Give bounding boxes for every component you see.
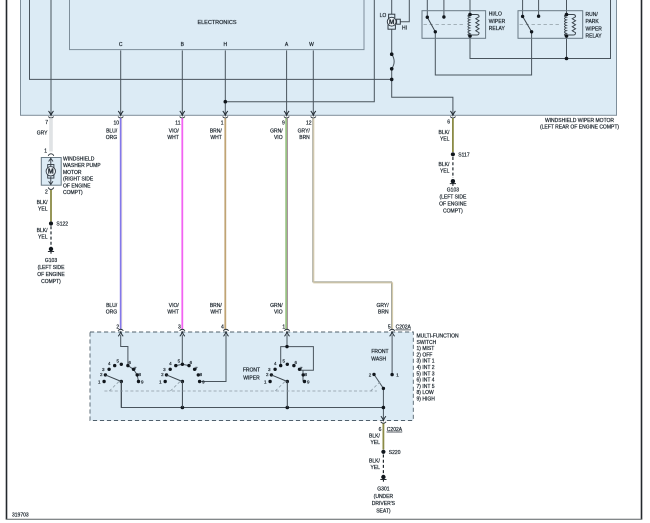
- wire motor to circuit breaker: [391, 29, 393, 54]
- svg-text:WINDSHIELD: WINDSHIELD: [63, 157, 95, 163]
- wire relay coils to top right: [470, 0, 611, 59]
- svg-text:1: 1: [44, 149, 47, 155]
- svg-text:RUN/: RUN/: [586, 12, 599, 18]
- front wash pivot: [382, 387, 385, 390]
- svg-text:6: 6: [447, 119, 450, 125]
- svg-text:BRN: BRN: [299, 135, 310, 141]
- svg-text:OF ENGINE: OF ENGINE: [439, 202, 467, 208]
- svg-text:9) HIGH: 9) HIGH: [417, 397, 436, 403]
- windshield washer pump motor box: [41, 158, 61, 186]
- svg-text:(LEFT SIDE: (LEFT SIDE: [38, 265, 66, 271]
- svg-text:H: H: [223, 42, 227, 48]
- page border left: [6, 0, 8, 519]
- svg-text:RELAY: RELAY: [489, 26, 506, 32]
- label MULTI-FUNCTION SWITCH legend: [417, 334, 460, 403]
- svg-text:BLU/: BLU/: [106, 303, 118, 309]
- svg-text:GRN/: GRN/: [270, 129, 283, 135]
- wire B to pin 11: [181, 50, 183, 115]
- svg-text:BLK/: BLK/: [369, 434, 380, 440]
- svg-text:OF ENGINE: OF ENGINE: [37, 272, 65, 278]
- relay2 coil: [564, 15, 575, 37]
- wire BLK/YEL washer to S122: [50, 190, 52, 221]
- svg-text:MOTOR: MOTOR: [63, 170, 82, 176]
- hi/lo wiper relay box: [422, 11, 486, 39]
- switch3 branch to contacts 7-8-9: [287, 347, 313, 371]
- switch1 contact bus 6-7-8-9: [128, 366, 139, 382]
- terminal pin 1 at motor box edge: [223, 111, 228, 118]
- svg-text:ORG: ORG: [106, 135, 118, 141]
- svg-text:7) INT 5: 7) INT 5: [417, 384, 435, 390]
- node bus switch2: [181, 406, 185, 410]
- wire dashed S122 to ground: [50, 226, 52, 246]
- wire H to pin 1: [224, 50, 226, 115]
- wire motor armature to top: [391, 0, 393, 14]
- ground G103 left: [48, 247, 54, 254]
- wire pin 7 inside box: [50, 0, 52, 115]
- svg-text:BLK/: BLK/: [37, 228, 48, 234]
- svg-text:G103: G103: [447, 188, 459, 194]
- svg-text:M: M: [48, 169, 54, 176]
- circuit breaker arc: [392, 54, 394, 69]
- terminal pin 10 at motor box edge: [118, 111, 123, 118]
- wire breaker to pin 6 exit: [392, 69, 453, 116]
- mechanical linkage dashed line: [104, 381, 381, 391]
- svg-text:(LEFT SIDE: (LEFT SIDE: [439, 195, 467, 201]
- svg-text:SEAT): SEAT): [376, 508, 391, 514]
- svg-text:YEL: YEL: [38, 207, 48, 213]
- run/park wiper relay box: [518, 11, 583, 39]
- svg-text:GRY/: GRY/: [376, 303, 389, 309]
- svg-text:(LEFT REAR OF ENGINE COMPT): (LEFT REAR OF ENGINE COMPT): [540, 124, 619, 130]
- wire pin1 to switch3 contacts: [286, 335, 288, 347]
- switch common bus: [121, 382, 383, 408]
- svg-text:S117: S117: [458, 152, 470, 158]
- node switch3 feed junction: [285, 345, 288, 348]
- svg-text:WIPER: WIPER: [243, 375, 260, 381]
- wire pin3 to switch2 contact 5: [181, 335, 183, 363]
- svg-text:BLK/: BLK/: [439, 130, 450, 136]
- page border right: [641, 0, 643, 519]
- svg-text:8) LOW: 8) LOW: [417, 390, 435, 396]
- rotary switch 2: [159, 359, 205, 408]
- splice S122: [49, 221, 53, 225]
- svg-text:WASH: WASH: [371, 357, 386, 363]
- svg-text:BLK/: BLK/: [369, 459, 380, 465]
- wire pin4 to switch2 contact 9: [201, 335, 226, 382]
- front wash contact 1: [390, 373, 393, 376]
- svg-text:9: 9: [282, 120, 285, 126]
- svg-text:WHT: WHT: [210, 135, 221, 141]
- svg-text:VIO/: VIO/: [169, 303, 180, 309]
- svg-text:12: 12: [306, 120, 312, 126]
- wire BLK/YEL C202A to S220: [382, 424, 384, 450]
- wire wash common to C202A pin 6: [382, 388, 384, 420]
- svg-text:G103: G103: [45, 258, 57, 264]
- front wash switch arm: [374, 374, 383, 388]
- svg-text:(UNDER: (UNDER: [374, 494, 394, 500]
- svg-text:VIO: VIO: [274, 309, 283, 315]
- wire from top turning right to wiper motor low brush: [30, 0, 392, 79]
- terminal pin 1 connector C202A: [284, 329, 289, 336]
- wire relay1 common to relay2 common: [435, 32, 531, 75]
- node: coil bus junction: [565, 57, 569, 61]
- svg-text:WASHER PUMP: WASHER PUMP: [63, 163, 101, 169]
- svg-text:LO: LO: [380, 13, 387, 19]
- wire BLU/ORG: [120, 118, 122, 329]
- wire GRY pin7 to washer pump: [50, 118, 53, 151]
- wire BRN/WHT: [224, 118, 226, 329]
- wire GRN/VIO: [285, 118, 287, 329]
- terminal pin 5 connector C202A: [389, 329, 394, 336]
- svg-text:FRONT: FRONT: [371, 349, 388, 355]
- svg-text:C202A: C202A: [387, 427, 403, 433]
- svg-text:S122: S122: [56, 222, 68, 228]
- page border bottom: [6, 518, 643, 520]
- svg-text:10: 10: [113, 120, 119, 126]
- node: H junction: [224, 100, 228, 104]
- wire VIO/WHT: [181, 118, 183, 329]
- svg-text:W: W: [309, 42, 314, 48]
- switch2 contact bus 4-5-6: [176, 364, 189, 365]
- svg-text:ELECTRONICS: ELECTRONICS: [197, 20, 236, 26]
- terminal pin 3 connector C202A: [180, 329, 185, 336]
- front wash contact 2: [372, 373, 375, 376]
- svg-text:YEL: YEL: [370, 440, 380, 446]
- wire dashed S220 to ground: [382, 455, 384, 474]
- svg-text:YEL: YEL: [440, 169, 450, 175]
- svg-text:BLK/: BLK/: [439, 162, 450, 168]
- svg-text:BLK/: BLK/: [37, 200, 48, 206]
- svg-text:YEL: YEL: [370, 465, 380, 471]
- terminal pin 4 connector C202A: [223, 329, 228, 336]
- svg-text:WHT: WHT: [167, 135, 178, 141]
- svg-text:YEL: YEL: [440, 137, 450, 143]
- rotary switch 3: [264, 359, 310, 408]
- svg-text:3) INT 1: 3) INT 1: [417, 359, 435, 365]
- svg-text:BLU/: BLU/: [106, 129, 118, 135]
- multi-function switch dashed box: [90, 332, 413, 421]
- svg-text:SWITCH: SWITCH: [417, 340, 437, 346]
- relay1 coil: [468, 15, 479, 37]
- svg-text:ORG: ORG: [106, 309, 118, 315]
- svg-text:WIPER: WIPER: [489, 19, 506, 25]
- node: breaker top: [390, 52, 394, 56]
- relay1 dashed actuation line: [424, 24, 465, 26]
- rotary switch 1: [98, 359, 144, 408]
- svg-text:WINDSHIELD WIPER MOTOR: WINDSHIELD WIPER MOTOR: [545, 118, 614, 124]
- splice S117: [451, 152, 455, 156]
- wire relay2 coil to junction: [566, 36, 568, 59]
- svg-text:GRY/: GRY/: [298, 129, 311, 135]
- svg-text:6: 6: [379, 427, 382, 433]
- node bus switch3: [286, 406, 290, 410]
- svg-text:WHT: WHT: [167, 309, 178, 315]
- wire relay2 contact b to top: [538, 0, 540, 16]
- svg-text:M: M: [389, 19, 394, 26]
- ground G103 right: [450, 179, 456, 186]
- svg-text:C202A: C202A: [396, 325, 412, 331]
- splice S220: [381, 450, 385, 454]
- svg-text:COMPT): COMPT): [41, 279, 61, 285]
- svg-text:WIPER: WIPER: [586, 26, 603, 32]
- terminal pin 7 at motor box edge: [48, 111, 53, 118]
- svg-text:OF ENGINE: OF ENGINE: [63, 183, 91, 189]
- windshield wiper motor outer box: [21, 0, 617, 115]
- wire pin5 to wash contact 1: [391, 335, 393, 374]
- electronics box: [70, 0, 365, 50]
- svg-text:BRN/: BRN/: [210, 303, 223, 309]
- wire motor HI brush to top: [400, 0, 409, 22]
- wire relay2 coil feed to top: [566, 0, 568, 15]
- svg-text:COMPT): COMPT): [63, 190, 83, 196]
- svg-text:S220: S220: [389, 450, 401, 456]
- wire W to pin 12: [312, 50, 314, 115]
- svg-text:FRONT: FRONT: [243, 367, 260, 373]
- wire GRY/BRN with jog: [313, 118, 392, 329]
- svg-text:RELAY: RELAY: [586, 34, 603, 40]
- wire C to pin 10: [120, 50, 122, 115]
- terminal pin 9 at motor box edge: [284, 111, 289, 118]
- relay1 switch: [426, 15, 446, 33]
- terminal pin 2 connector C202A: [118, 329, 123, 336]
- svg-text:MULTI-FUNCTION: MULTI-FUNCTION: [417, 334, 460, 340]
- svg-text:PARK: PARK: [586, 19, 600, 25]
- wire from node H junction to top: [225, 0, 374, 102]
- svg-text:WHT: WHT: [210, 309, 221, 315]
- svg-text:DRIVER'S: DRIVER'S: [372, 501, 396, 507]
- terminal pin 11 at motor box edge: [180, 111, 185, 118]
- wire relay2 contact a to top: [522, 0, 524, 16]
- svg-text:HI: HI: [402, 26, 407, 32]
- svg-text:319703: 319703: [12, 513, 29, 519]
- svg-text:G301: G301: [377, 487, 389, 493]
- wire BLK/YEL pin6 to S117: [452, 118, 454, 152]
- svg-text:5) INT 3: 5) INT 3: [417, 371, 435, 377]
- svg-text:BRN: BRN: [378, 309, 389, 315]
- node bus wash: [382, 406, 386, 410]
- washer pump terminal 2: [48, 187, 54, 189]
- svg-text:2: 2: [45, 190, 48, 196]
- switch3 branch to contact 4: [281, 347, 287, 365]
- terminal pin 12 at motor box edge: [311, 111, 316, 118]
- svg-text:GRY: GRY: [37, 131, 48, 137]
- washer pump terminal 1: [48, 154, 54, 156]
- wire relay1 NO contact to top: [443, 0, 445, 17]
- wire pin2 to switch1 contact 6: [121, 335, 128, 364]
- svg-text:C: C: [119, 42, 123, 48]
- wire A to pin 9: [286, 50, 288, 115]
- svg-text:7: 7: [45, 120, 48, 126]
- svg-text:VIO: VIO: [274, 135, 283, 141]
- svg-text:1) MIST: 1) MIST: [417, 346, 435, 352]
- svg-text:11: 11: [175, 120, 180, 126]
- svg-text:YEL: YEL: [38, 235, 48, 241]
- node: low brush junction: [390, 78, 394, 82]
- svg-text:4) INT 2: 4) INT 2: [417, 365, 435, 371]
- wire relay1 NC contact to top: [426, 0, 428, 17]
- ground G301: [380, 475, 386, 482]
- svg-text:VIO/: VIO/: [169, 129, 180, 135]
- svg-text:COMPT): COMPT): [443, 209, 463, 215]
- wire dashed S117 to ground: [452, 157, 454, 178]
- svg-text:(RIGHT SIDE: (RIGHT SIDE: [63, 177, 94, 183]
- node: breaker bottom: [390, 67, 394, 71]
- wiper motor M symbol: [387, 14, 400, 29]
- wire relay1 coil feed to top: [469, 0, 471, 15]
- svg-text:2) OFF: 2) OFF: [417, 352, 433, 358]
- relay2 dashed actuation line: [520, 24, 561, 26]
- relay2 switch: [521, 15, 540, 34]
- svg-text:HI/LO: HI/LO: [489, 12, 502, 18]
- svg-text:4: 4: [221, 325, 224, 331]
- svg-text:GRN/: GRN/: [270, 303, 283, 309]
- terminal pin 6 at motor box edge: [450, 111, 455, 118]
- svg-text:1: 1: [221, 120, 224, 126]
- svg-text:BRN/: BRN/: [210, 129, 223, 135]
- connector terminal C202A bottom: [381, 416, 386, 423]
- svg-text:6) INT 4: 6) INT 4: [417, 378, 435, 384]
